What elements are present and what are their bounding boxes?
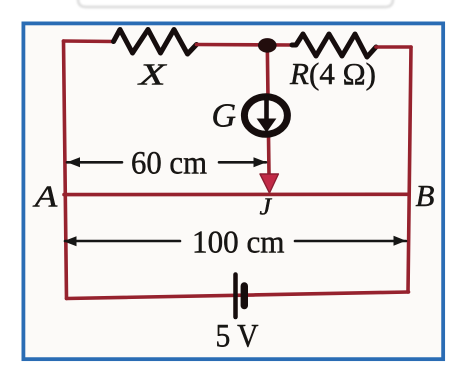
wire: galvanometer branch	[267, 45, 269, 174]
resistor X	[114, 30, 197, 55]
battery long plate	[233, 275, 238, 318]
arrowhead left 60cm	[67, 157, 80, 167]
svg-text:60 cm: 60 cm	[131, 146, 207, 182]
wire: right vertical	[408, 47, 411, 292]
wire: bottom with battery gap	[67, 292, 409, 299]
galvanometer G	[244, 97, 287, 135]
arrowhead right 100cm	[394, 236, 407, 246]
arrowhead left 100cm	[64, 236, 77, 246]
arrowhead right 60cm	[254, 157, 267, 167]
wire: top right segment	[376, 45, 411, 49]
svg-text:5 V: 5 V	[216, 319, 259, 355]
svg-text:B: B	[416, 178, 435, 213]
blue frame	[23, 23, 443, 359]
jockey J arrow	[260, 174, 278, 193]
node junction dot	[258, 38, 277, 53]
dimension 60 cm line	[67, 161, 266, 164]
battery short plate	[241, 286, 248, 306]
svg-text:(4 Ω): (4 Ω)	[309, 56, 376, 91]
dimension 100 cm line	[65, 240, 406, 243]
svg-text:A: A	[32, 179, 58, 214]
faint card bottom edge at top	[78, 0, 393, 7]
galvanometer arrow	[264, 98, 269, 120]
svg-text:X: X	[136, 57, 167, 92]
wire: left vertical	[64, 41, 67, 299]
svg-text:100 cm: 100 cm	[192, 225, 285, 260]
wire: top middle segment	[197, 43, 293, 47]
wire: top left segment	[64, 39, 114, 43]
resistor R	[292, 34, 376, 57]
svg-text:J: J	[260, 195, 273, 221]
wire AB	[64, 193, 409, 197]
svg-text:R: R	[289, 56, 309, 91]
svg-text:G: G	[212, 98, 237, 135]
